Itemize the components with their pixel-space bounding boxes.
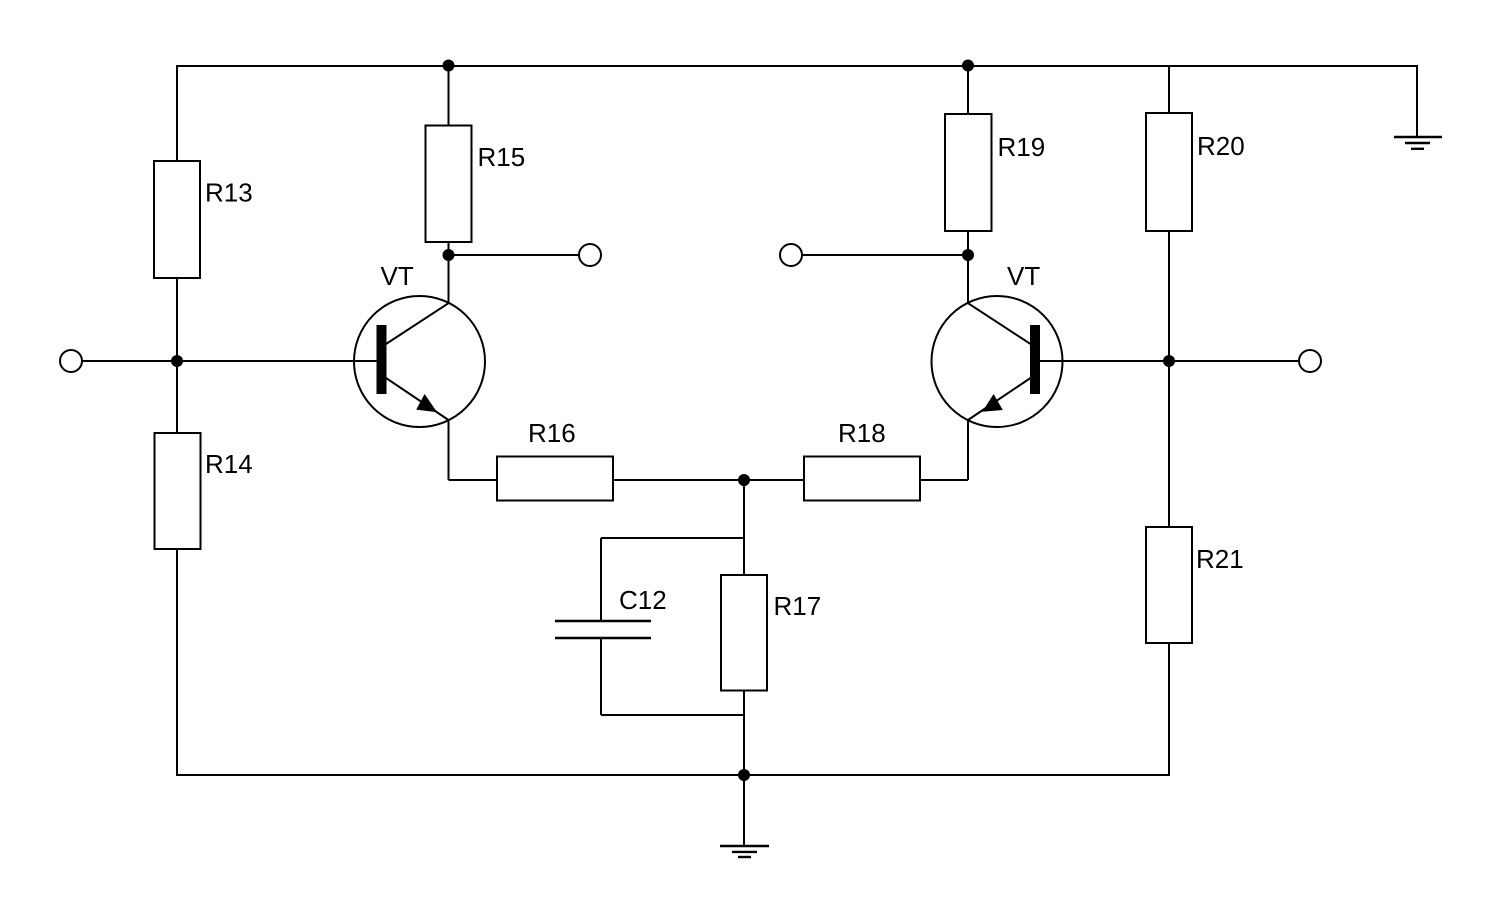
wire R19 to VT2 collector: [967, 231, 969, 303]
node dot top rail / R15: [443, 60, 455, 72]
wire C12 top lead: [600, 538, 602, 621]
wire R18 to VT2 emitter: [920, 479, 968, 481]
capacitor C12: [555, 621, 651, 638]
svg-text:C12: C12: [619, 585, 667, 615]
wire input terminal to node A: [82, 360, 177, 362]
resistor R14: [155, 433, 201, 549]
wire node C to R21: [1168, 361, 1170, 527]
svg-text:R15: R15: [478, 142, 526, 172]
wire C12 bottom lead: [600, 639, 602, 716]
svg-text:R13: R13: [205, 178, 253, 208]
resistor R19: [945, 114, 992, 231]
wire top rail to R20: [1168, 65, 1170, 113]
svg-text:R16: R16: [528, 418, 576, 448]
wire VT2 emitter down: [967, 419, 969, 480]
transistor VT2: [932, 296, 1063, 427]
terminal VT2 collector tap: [780, 244, 802, 266]
wire top rail to right ground: [1416, 65, 1418, 137]
resistor R13: [154, 161, 200, 278]
wire node B to R18: [744, 479, 804, 481]
svg-text:R19: R19: [998, 132, 1046, 162]
svg-text:R14: R14: [205, 449, 253, 479]
wire left rail down to R13: [176, 65, 178, 161]
wire VT2 base to right rail: [1040, 360, 1169, 362]
node dot top rail / R19: [962, 60, 974, 72]
resistor R18: [804, 457, 920, 501]
wire C12 top bracket: [601, 537, 744, 539]
wire top supply rail: [177, 65, 1417, 67]
node dot emitter junction: [738, 474, 750, 486]
wire C12 bottom bracket: [601, 714, 744, 716]
svg-text:VT: VT: [1007, 261, 1040, 291]
resistor R16: [497, 457, 613, 501]
wire R20 to node C: [1168, 231, 1170, 361]
node dot base VT2 / R20 R21: [1163, 355, 1175, 367]
resistor R17: [721, 575, 767, 691]
transistor VT1: [354, 296, 485, 427]
resistor R21: [1146, 527, 1192, 643]
wire VT1 emitter down: [448, 419, 450, 480]
wire R17 to bottom rail: [743, 691, 745, 775]
wire R14 down to bottom rail: [176, 549, 178, 776]
node dot input / base VT1: [171, 355, 183, 367]
svg-text:R18: R18: [838, 418, 886, 448]
wire top rail to R15: [448, 65, 450, 125]
wire bottom rail: [176, 774, 1170, 776]
wire R15 to VT1 collector: [448, 242, 450, 303]
svg-text:R21: R21: [1196, 544, 1244, 574]
node dot R19 / collector tap: [962, 249, 974, 261]
resistor R15: [426, 126, 472, 243]
wire R13 to R14: [176, 278, 178, 432]
wire R16 to node B: [613, 479, 744, 481]
node dot bottom rail / ground: [738, 769, 750, 781]
wire top rail to R19: [967, 65, 969, 114]
node dot R15 / collector tap: [443, 249, 455, 261]
terminal output right: [1299, 350, 1321, 372]
wire node A to VT1 base: [177, 360, 377, 362]
resistor R20: [1146, 113, 1192, 231]
wire node B down to R17: [743, 480, 745, 575]
wire terminal to VT2 collector tap: [803, 254, 968, 256]
wire R21 to bottom rail: [1168, 643, 1170, 776]
svg-text:R20: R20: [1197, 131, 1245, 161]
terminal VT1 collector tap: [579, 244, 601, 266]
wire collector tap to terminal: [449, 254, 580, 256]
wire bottom node to ground: [743, 775, 745, 846]
svg-text:R17: R17: [774, 591, 822, 621]
ground (top right): [1394, 137, 1442, 149]
wire emitter to R16: [449, 479, 498, 481]
wire node C to output terminal: [1169, 360, 1298, 362]
svg-text:VT: VT: [381, 261, 414, 291]
ground (bottom center): [720, 846, 769, 857]
terminal input left: [60, 350, 82, 372]
